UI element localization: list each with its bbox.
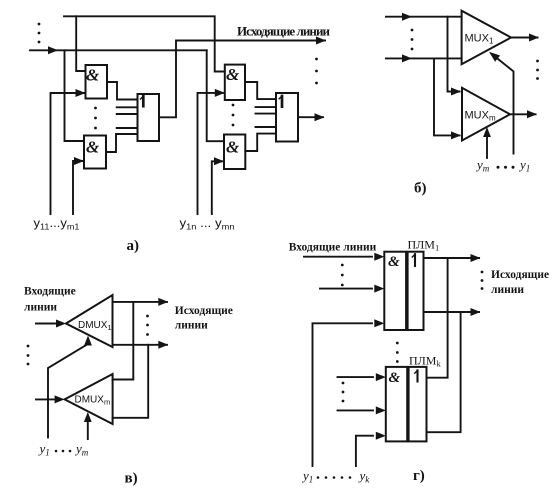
- arrowhead output 2 v: [158, 341, 168, 349]
- svg-text:y1: y1: [38, 441, 50, 458]
- wire U5 output to OR U6: [245, 134, 276, 151]
- arrowhead PLMk input 3: [376, 432, 386, 440]
- svg-text:&: &: [86, 66, 100, 85]
- demux DMUX1: [66, 295, 113, 347]
- wire select y1 to MUX1: [498, 59, 514, 154]
- arrowhead input 2: [402, 54, 412, 62]
- svg-text:&: &: [226, 65, 240, 84]
- arrowhead PLMk input 1: [376, 373, 386, 381]
- wire input line DMUX1: [36, 323, 55, 325]
- dots outputs g: [481, 271, 484, 290]
- arrowhead y1n into U4: [215, 89, 225, 97]
- svg-text:линии: линии: [175, 320, 208, 332]
- wire select y1 to DMUX1: [48, 344, 88, 437]
- svg-text:г): г): [413, 468, 425, 484]
- svg-text:Входящие: Входящие: [24, 286, 76, 298]
- arrowhead ym1 into U2: [74, 157, 84, 165]
- wire main line to gate U4: [207, 50, 224, 141]
- wire PLMk output 2 joins line 2: [427, 312, 461, 432]
- wire input line 2: [386, 57, 462, 59]
- svg-text:а): а): [127, 238, 140, 254]
- wire stub inputs U6: [256, 107, 277, 127]
- PLM1 AND block: [384, 252, 406, 330]
- arrowhead y11 into U1: [76, 89, 86, 97]
- arrowhead output 1 v: [158, 298, 168, 306]
- svg-text:y11...ym1: y11...ym1: [34, 218, 81, 232]
- svg-text:линии: линии: [491, 284, 524, 296]
- wire y11 select input: [51, 93, 85, 214]
- wire MUX1 output: [511, 37, 538, 39]
- AND gate U5: [224, 135, 245, 170]
- svg-text:&: &: [388, 254, 400, 270]
- svg-text:в): в): [125, 471, 138, 487]
- svg-text:MUX1: MUX1: [465, 33, 494, 46]
- svg-text:Исходящие: Исходящие: [175, 305, 233, 317]
- dots input lines left: [38, 23, 41, 44]
- wire PLM1 output 2: [424, 311, 480, 313]
- arrowhead PLM1 input 2: [374, 285, 384, 293]
- svg-text:&: &: [226, 138, 240, 157]
- svg-text:линии: линии: [24, 302, 57, 314]
- dots between y1 ym v: [55, 450, 72, 453]
- AND gate U1: [86, 65, 108, 99]
- arrowhead select ym: [483, 127, 491, 137]
- wire DMUXm output 1 joins line 1: [113, 302, 134, 380]
- wire branch to gate U2: [65, 50, 85, 141]
- arrowhead output 2 g: [471, 308, 481, 316]
- dots outputs b: [536, 60, 539, 80]
- arrowhead into DMUXm: [55, 395, 65, 403]
- wire main input line: [30, 49, 207, 51]
- svg-text:DMUX1: DMUX1: [78, 320, 112, 332]
- mux MUXm: [462, 88, 510, 141]
- arrowhead PLM1 input 1: [374, 253, 384, 261]
- svg-text:ym: ym: [74, 441, 89, 458]
- arrowhead U6 output: [315, 113, 325, 121]
- dots between PLM1 PLMk: [396, 342, 399, 363]
- wire input line DMUXm: [36, 398, 54, 400]
- wire PLM1 input 1: [304, 256, 372, 258]
- wire ymn select input: [212, 161, 223, 214]
- PLM1 OR block: [408, 252, 424, 330]
- svg-text:Исходящие: Исходящие: [491, 269, 549, 281]
- arrowhead into MUXm input 1: [451, 88, 461, 96]
- svg-text:&: &: [389, 370, 401, 386]
- arrowhead select ym v: [84, 412, 92, 422]
- PLMk OR block: [409, 367, 427, 442]
- wire branch line1 to MUXm: [448, 17, 460, 92]
- arrowhead input 1: [402, 13, 412, 21]
- arrowhead select y1: [489, 52, 500, 62]
- dots PLM1 inputs: [341, 264, 344, 287]
- wire U2 output to OR U3: [106, 134, 138, 152]
- wire select ym to MUXm: [486, 137, 488, 158]
- arrowhead into MUXm input 2: [451, 131, 461, 139]
- wire branch top bus to gate U1: [76, 16, 85, 71]
- PLMk AND block: [386, 367, 407, 442]
- svg-text:DMUXm: DMUXm: [75, 395, 111, 407]
- wire U4 output to OR U6: [245, 82, 276, 99]
- svg-text:yk: yk: [358, 468, 371, 485]
- AND gate U4: [225, 65, 245, 100]
- wire select y1 to PLM1: [313, 323, 373, 466]
- dots between y1 yk g: [317, 476, 352, 479]
- arrowhead select y1 v: [84, 336, 92, 346]
- arrowhead PLMk input 2: [376, 406, 386, 414]
- wire PLMk input 1: [338, 376, 374, 378]
- OR gate U6: [276, 93, 298, 142]
- wire top bus: [64, 16, 225, 71]
- svg-text:ym: ym: [475, 157, 490, 174]
- arrowhead MUX1 output: [529, 34, 539, 42]
- OR gate U3: [138, 94, 160, 141]
- arrowhead outgoing line: [316, 37, 326, 45]
- svg-text:y1: y1: [301, 468, 313, 485]
- svg-text:MUXm: MUXm: [465, 110, 496, 123]
- arrowhead ymn into U5: [214, 157, 224, 165]
- dots between ym y1: [497, 166, 515, 169]
- wire select ym to DMUXm: [87, 422, 89, 439]
- wire DMUXm output 2 joins line 2: [113, 345, 149, 418]
- wire stub inputs U3: [117, 107, 138, 128]
- wire DMUX1 output 1: [113, 301, 168, 303]
- arrowhead main input: [48, 46, 58, 54]
- dots inputs v: [27, 345, 30, 366]
- svg-text:y1: y1: [518, 157, 530, 174]
- wire PLM1 input 2: [320, 288, 372, 290]
- dots inputs b: [411, 29, 414, 51]
- svg-text:Исходящие линии: Исходящие линии: [237, 24, 331, 39]
- wire MUXm output: [510, 113, 536, 115]
- wire DMUX1 output 2: [113, 344, 168, 346]
- arrowhead into DMUX1: [56, 320, 66, 328]
- svg-text:б): б): [414, 181, 427, 197]
- dots outputs v: [146, 315, 149, 336]
- svg-text:y1n ... ymn: y1n ... ymn: [180, 218, 235, 232]
- wire ym1 select input: [73, 161, 83, 214]
- wire U6 output: [298, 116, 323, 118]
- dots PLMk inputs: [342, 382, 345, 403]
- wire select yk to PLMk: [356, 436, 373, 466]
- dots outgoing right a: [315, 58, 318, 85]
- demux DMUXm: [65, 374, 113, 424]
- arrowhead MUXm output: [527, 110, 537, 118]
- arrowhead PLM1 input 3: [374, 319, 384, 327]
- wire U1 output to OR U3: [107, 82, 138, 100]
- mux MUX1: [462, 11, 511, 64]
- wire PLMk output 1 joins line 1: [427, 258, 448, 378]
- AND gate U2: [84, 136, 106, 169]
- wire PLMk input 2: [338, 409, 374, 411]
- svg-text:Входящие линии: Входящие линии: [289, 242, 377, 254]
- dots between U1 and U2: [94, 107, 97, 130]
- wire branch line2 to MUXm: [434, 58, 460, 135]
- wire y1n select input: [198, 93, 224, 214]
- svg-text:ПЛМ1: ПЛМ1: [408, 238, 440, 253]
- wire PLM1 output 1: [424, 257, 480, 259]
- arrowhead output 1 g: [471, 254, 481, 262]
- svg-text:&: &: [86, 138, 100, 157]
- dots between U4 and U5: [232, 104, 235, 127]
- wire input line 1: [386, 16, 462, 18]
- wire U3 output to outgoing line: [159, 41, 325, 118]
